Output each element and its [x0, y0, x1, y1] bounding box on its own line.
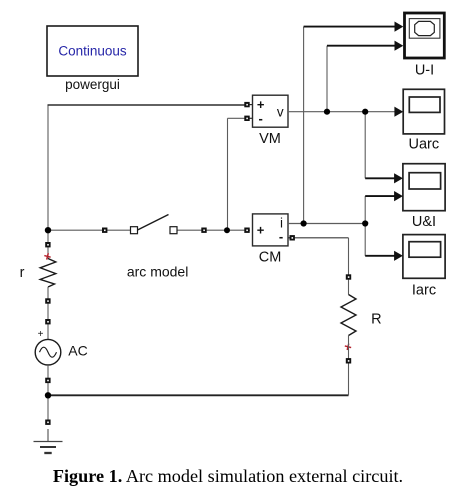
- switch right terminal (white square): [170, 227, 177, 234]
- AC source sine wave: [40, 347, 57, 357]
- wire: ground node down to ground port: [47, 395, 49, 425]
- scope Iarc: [403, 235, 445, 279]
- port marker r bottom: [45, 298, 50, 303]
- wire: horizontal into U&I first input: [365, 177, 395, 179]
- port marker r top: [45, 242, 50, 247]
- resistor r branch: wire from node down to zigzag: [47, 230, 49, 258]
- port marker AC top: [45, 319, 50, 324]
- ground: [34, 442, 63, 454]
- wire: CM - output horizontal to R branch: [295, 237, 349, 239]
- junction node switch output / VM - branch: [224, 227, 230, 233]
- port marker AC bottom: [45, 378, 50, 383]
- switch left terminal (white square): [131, 227, 138, 234]
- pin stub VM -: [245, 117, 253, 119]
- junction node on i line at x=365: [362, 220, 368, 226]
- svg-text:AC: AC: [68, 343, 87, 359]
- svg-text:+: +: [257, 97, 265, 112]
- svg-text:CM: CM: [259, 250, 282, 266]
- svg-text:+: +: [38, 329, 44, 340]
- arrowhead into Iarc: [394, 251, 403, 261]
- port marker R top: [346, 274, 351, 279]
- wire: riser x=365.2 from i node up to U&I second input: [364, 196, 366, 223]
- wire: drop x=365.2 from v line down to U&I first input: [364, 112, 366, 179]
- wire: switch row from left rail to switch: [48, 229, 131, 231]
- wire: vertical riser x=327 from v line up to U-I second input: [326, 46, 328, 112]
- junction node at left rail / bottom return: [45, 392, 51, 398]
- junction node at left rail / switch row: [45, 227, 51, 233]
- svg-text:r: r: [20, 265, 25, 281]
- wire: vertical down to resistor R: [348, 238, 350, 295]
- wire: horizontal into U-I second input: [327, 45, 396, 47]
- port marker VM -: [244, 116, 249, 121]
- scope Uarc: [403, 89, 444, 134]
- scope U-I (XY graph): [405, 13, 445, 58]
- port marker R bottom: [346, 358, 351, 363]
- junction node on v line at x=365: [362, 109, 368, 115]
- svg-text:Figure 1. Arc model simulation: Figure 1. Arc model simulation external …: [53, 466, 403, 486]
- arrowhead into U&I input 2: [394, 191, 403, 201]
- port marker CM +: [244, 228, 249, 233]
- wire: R bottom down to return wire: [348, 358, 350, 395]
- pin stub CM -: [288, 237, 295, 239]
- svg-text:VM: VM: [259, 131, 281, 147]
- svg-text:Continuous: Continuous: [58, 44, 127, 59]
- svg-text:U&I: U&I: [412, 214, 436, 230]
- wire: drop x=365.2 from i node down to Iarc input: [364, 224, 366, 256]
- svg-text:R: R: [371, 312, 381, 328]
- wire: AC bottom to ground node: [47, 365, 49, 395]
- switch blade (arc model): [138, 215, 169, 231]
- pin stub VM +: [245, 104, 253, 106]
- wire: CM i output line: [288, 223, 366, 225]
- port marker CM -: [290, 235, 295, 240]
- svg-text:Uarc: Uarc: [408, 137, 439, 153]
- wire: R zigzag bottom to port: [348, 336, 350, 359]
- powergui block: [47, 26, 138, 76]
- wire: switch row from switch to CM + input: [177, 229, 250, 231]
- junction node on i line at x=303.6: [301, 220, 307, 226]
- wire: horizontal into U&I second input: [365, 195, 395, 197]
- port marker VM +: [244, 102, 249, 107]
- wire: VM - branch horizontal: [228, 117, 248, 119]
- scope U&I: [403, 164, 445, 211]
- wire: horizontal into Iarc input: [365, 255, 395, 257]
- arrowhead into U-I input 2: [395, 41, 404, 51]
- arrowhead into Uarc: [394, 107, 403, 117]
- wire: horizontal into U-I first input: [304, 26, 396, 28]
- wire: VM - branch vertical down to switch output node: [227, 118, 229, 230]
- junction node on v line at x=327: [324, 109, 330, 115]
- resistor r zigzag: [40, 259, 56, 288]
- wire: left rail vertical from top corner down to switch row: [47, 105, 49, 230]
- resistor R branch zigzag: [341, 295, 356, 336]
- port marker ground: [45, 420, 50, 425]
- op VM block (voltage measurement): [253, 95, 289, 127]
- svg-text:-: -: [259, 111, 263, 126]
- svg-text:powergui: powergui: [65, 77, 120, 92]
- svg-text:U-I: U-I: [415, 63, 434, 79]
- ground stub: [47, 429, 49, 442]
- wire: vertical riser x=303.6 from CM i node up to U-I first input: [303, 27, 305, 224]
- wire: top horizontal from left rail to VM + input: [48, 104, 248, 106]
- op CM block (current measurement): [253, 214, 289, 246]
- arrowhead into U&I input 1: [394, 173, 403, 183]
- wire: r bottom to AC source: [47, 287, 49, 339]
- AC source circle: [35, 339, 61, 365]
- svg-text:i: i: [280, 215, 283, 230]
- svg-text:v: v: [277, 104, 284, 119]
- port marker switch right: [201, 228, 206, 233]
- svg-text:-: -: [279, 229, 283, 244]
- svg-text:Iarc: Iarc: [412, 283, 436, 299]
- svg-text:arc model: arc model: [127, 264, 188, 280]
- port marker switch left: [102, 228, 107, 233]
- arrowhead into U-I input 1: [395, 22, 404, 32]
- wire: VM v output line to Uarc: [288, 111, 396, 113]
- wire: bottom return from ground node to R branch: [48, 394, 349, 396]
- svg-text:+: +: [257, 223, 265, 238]
